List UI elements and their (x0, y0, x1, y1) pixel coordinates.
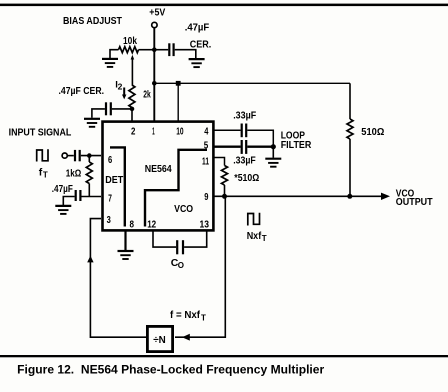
ground (C2) (84, 119, 100, 127)
wire: pin 5 to loop filter (thick) (213, 145, 241, 147)
node: pin 10 tap (square) (176, 81, 181, 86)
node: junction +5V / 10k / C1 (152, 47, 157, 52)
arrowhead into divider (182, 334, 190, 341)
wire: divider to pin 3 (feedback left) (90, 219, 146, 338)
svg-text:13: 13 (200, 218, 210, 230)
capacitor C3 input coupling (75, 150, 101, 161)
svg-text:10: 10 (176, 126, 183, 138)
capacitor C6 .33uF (pin 5) (233, 140, 273, 166)
ground (C1) (189, 59, 205, 67)
wire: rail down to pin 10 (177, 83, 179, 120)
svg-text:2: 2 (131, 126, 136, 138)
ground (pin 8) (118, 251, 134, 259)
wire: pin 4 to loop filter (213, 129, 241, 131)
svg-text:VCO: VCO (174, 203, 193, 215)
svg-text:CER.: CER. (190, 39, 212, 51)
wire: terminal to C3 (68, 155, 74, 157)
U1 internal phase-detector line (110, 147, 125, 226)
svg-text:2: 2 (118, 81, 123, 91)
svg-text:INPUT SIGNAL: INPUT SIGNAL (9, 127, 72, 139)
svg-text:+5V: +5V (149, 6, 165, 18)
svg-text:2k: 2k (143, 88, 151, 100)
ground (C4) (55, 206, 71, 214)
wire: junction to pin 2 (131, 109, 133, 121)
svg-text:510Ω: 510Ω (361, 126, 384, 138)
R1 wiper arrow (131, 55, 135, 85)
wire: 10k left lead (110, 50, 119, 58)
wire: output to divider (feedback right) (175, 196, 225, 337)
capacitor C2 .47uF CER (left bypass) (92, 102, 132, 118)
wire: +5V terminal down to pin 1 (153, 28, 155, 121)
IC U1 NE564 body (103, 122, 214, 231)
svg-text:8: 8 (130, 218, 135, 230)
svg-text:T: T (43, 171, 48, 180)
svg-text:OUTPUT: OUTPUT (396, 196, 433, 208)
wire: 10k right lead (139, 49, 155, 51)
svg-text:.33µF: .33µF (233, 109, 256, 121)
node: pin 6 junction (87, 153, 92, 158)
svg-text:Nxf: Nxf (247, 230, 262, 242)
resistor R5 *510 ohm (222, 166, 260, 197)
wire: pin 11 to R5 (213, 158, 225, 166)
U1 internal VCO line (145, 150, 207, 227)
divider U2 /N box (147, 326, 172, 351)
svg-text:7: 7 (108, 192, 112, 204)
capacitor C4 .47uF (63, 190, 101, 205)
top border rule (0, 4, 448, 7)
svg-text:.47µF: .47µF (52, 183, 73, 195)
input terminal (62, 153, 67, 158)
svg-text:DET: DET (105, 174, 124, 186)
resistor R4 1k (66, 156, 93, 197)
wire: pin 8 to ground (124, 231, 126, 251)
ground (10k left) (102, 59, 118, 67)
wire: +5V rail to 510 ohm (154, 82, 350, 84)
svg-text:O: O (178, 261, 184, 270)
potentiometer R1 10k (119, 35, 139, 53)
node: +5V rail junction (152, 81, 157, 86)
svg-text:T: T (262, 234, 267, 243)
svg-text:FILTER: FILTER (281, 139, 312, 151)
arrowhead up on feedback (87, 256, 93, 263)
svg-text:Figure 12. NE564 Phase-Locked: Figure 12. NE564 Phase-Locked Frequency … (17, 363, 324, 377)
node: loop filter junction (271, 144, 276, 149)
capacitor C5 .33uF (pin 4) (233, 109, 273, 146)
svg-text:1kΩ: 1kΩ (66, 168, 82, 180)
svg-text:T: T (201, 313, 206, 322)
svg-text:5: 5 (204, 140, 209, 152)
svg-text:BIAS ADJUST: BIAS ADJUST (63, 15, 122, 27)
ground (loop filter) (265, 159, 281, 167)
resistor R2 2k (129, 85, 151, 108)
node: R3 / output junction (347, 194, 352, 199)
svg-text:*510Ω: *510Ω (234, 172, 259, 184)
+5V supply terminal (149, 6, 165, 27)
svg-text:9: 9 (204, 191, 208, 203)
svg-text:10k: 10k (123, 35, 137, 47)
resistor R3 510 ohm (pull-up) (347, 83, 384, 196)
wire: pin 9 VCO output line (213, 195, 382, 197)
caption rule (0, 355, 448, 357)
svg-text:1: 1 (152, 126, 155, 138)
svg-text:6: 6 (108, 154, 112, 166)
output waveform icon NxfT (247, 213, 267, 243)
svg-text:÷N: ÷N (153, 334, 166, 346)
wire: loop filter ground stub (272, 147, 274, 158)
svg-text:12: 12 (147, 218, 156, 230)
svg-text:11: 11 (202, 155, 209, 167)
capacitor C7 CO (pins 12-13) (153, 231, 207, 270)
svg-text:f = Nxf: f = Nxf (170, 309, 200, 321)
svg-text:.33µF: .33µF (233, 154, 256, 166)
label f = NxfT (170, 309, 206, 322)
svg-text:3: 3 (107, 214, 111, 226)
node: 2k / C2 / pin 2 junction (130, 107, 135, 112)
node: R5 / feedback junction (222, 194, 227, 199)
capacitor C1 .47uF CER (top) (154, 21, 211, 58)
svg-text:.47µF CER.: .47µF CER. (59, 85, 105, 97)
input waveform icon fT (37, 149, 48, 179)
svg-text:.47µF: .47µF (185, 21, 210, 33)
svg-text:4: 4 (204, 126, 208, 138)
current arrow I2 (115, 79, 126, 99)
output arrowhead (381, 193, 390, 200)
svg-text:NE564: NE564 (145, 163, 172, 175)
